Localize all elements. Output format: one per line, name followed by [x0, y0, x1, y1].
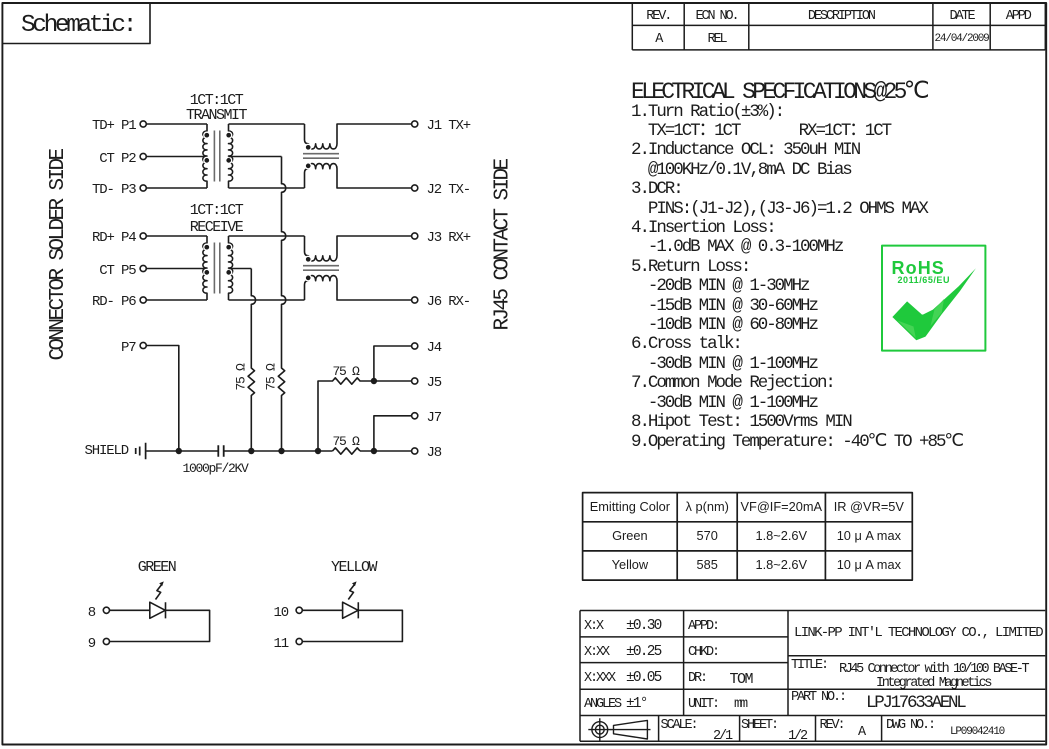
field SCALE: — [661, 719, 697, 733]
revision table — [632, 3, 1045, 50]
wire P3 to T1 — [146, 187, 207, 189]
wire P1 to T1 — [146, 123, 207, 125]
value label 1000pF/2KV — [183, 462, 248, 475]
LED D2 arrow — [348, 581, 356, 599]
field REV: — [820, 719, 844, 733]
resistor R3 75ohm to J5 — [318, 378, 374, 451]
value label 75 ohm R4 — [333, 435, 359, 448]
RoHS text — [892, 259, 945, 277]
field SHEET: — [741, 719, 777, 733]
pin J2 — [412, 185, 418, 191]
LED table row green — [583, 530, 678, 543]
label 1CT:1CT transmit — [166, 93, 266, 108]
pin P4 — [140, 233, 146, 239]
resistor R4 75ohm to J8 — [333, 448, 361, 454]
revision table header APPD — [990, 10, 1045, 24]
pin J8 — [412, 448, 418, 454]
pin label 10 — [259, 606, 288, 620]
net label TD- P3 — [57, 183, 136, 197]
LED table header Emitting Color — [583, 501, 678, 514]
CM1 phase dots — [305, 144, 311, 169]
net label J1 TX+ — [427, 119, 471, 133]
LED table header IR @VR=5V — [825, 501, 912, 514]
schematic title box — [2, 3, 150, 44]
choke CM2 bottom winding and wire to J6 — [305, 276, 412, 300]
pin J1 — [412, 121, 418, 127]
revision table header REV. — [632, 10, 684, 24]
transformer T2 primary winding — [203, 236, 207, 300]
field APPD: — [688, 620, 718, 634]
CM2 phase dots — [305, 256, 311, 281]
ground bus wire — [146, 450, 411, 452]
LED D1 green — [110, 602, 166, 618]
tolerance X:XXX — [584, 672, 614, 686]
revision row date — [933, 34, 990, 45]
title: Schematic: — [21, 14, 134, 39]
wire to J5 — [374, 380, 412, 382]
wire tap B vertical with hop and resistor R1 75ohm — [248, 269, 255, 452]
pin 9 — [103, 638, 109, 644]
transformer T2 secondary winding — [229, 236, 233, 300]
pin J5 — [412, 378, 418, 384]
transformer T1 core — [214, 131, 219, 182]
shield symbol — [136, 443, 146, 460]
title block outline — [580, 611, 1045, 742]
wire T1 secondary top to CM1 — [229, 123, 305, 125]
pin P5 — [140, 265, 146, 271]
tolerance ANGLES — [584, 698, 620, 712]
field CHKD: — [688, 646, 718, 660]
label 1CT:1CT receive — [166, 203, 266, 218]
RoHS checkmark facet — [898, 299, 945, 338]
net label J8 — [427, 446, 442, 460]
field UNIT: mm — [688, 698, 718, 712]
pin 10 — [296, 607, 302, 613]
part number — [866, 695, 964, 713]
net label RD+ P4 — [57, 231, 136, 245]
value label 75 ohm R2 vertical — [265, 364, 278, 390]
company name — [794, 626, 1042, 640]
transformer T2 core — [214, 243, 219, 294]
value label 75 ohm R1 vertical — [235, 364, 248, 390]
LED spec table — [583, 493, 913, 580]
title line 2 — [876, 677, 990, 691]
T1 phase dots — [204, 132, 232, 163]
dwg number — [950, 727, 1004, 738]
revision table header ECN NO. — [684, 10, 749, 24]
net label P7 — [57, 341, 136, 355]
wire D1 loop — [110, 610, 210, 641]
label GREEN — [116, 560, 197, 575]
field TITLE: — [791, 659, 827, 673]
junction dot at J5 node — [371, 378, 377, 384]
label CONNECTOR SOLDER SIDE — [48, 148, 69, 363]
pin P2 — [140, 153, 146, 159]
choke CM1 core — [303, 154, 339, 159]
pin label 8 — [66, 606, 95, 620]
pin 8 — [103, 607, 109, 613]
net label J2 TX- — [427, 183, 471, 197]
net label J7 — [427, 411, 442, 425]
RoHS logo box — [882, 246, 985, 351]
wire P2 to T1 — [146, 156, 207, 158]
wire P6 to T2 — [146, 299, 207, 301]
value label 75 ohm R3 — [333, 365, 359, 378]
junction dots on bus — [176, 448, 377, 454]
wire P7 down to bus — [146, 346, 179, 452]
LED table header VF@IF=20mA — [737, 501, 825, 514]
net label TD+ P1 — [57, 119, 136, 133]
pin label 9 — [66, 637, 95, 651]
net label RD- P6 — [57, 295, 136, 309]
wire P4 to T2 — [146, 235, 207, 237]
net label J6 RX- — [427, 295, 471, 309]
capacitor C1 1000pF/2KV — [218, 445, 223, 456]
LED table header lambda p(nm) — [677, 501, 737, 514]
choke CM2 core — [303, 266, 339, 271]
field DWG NO.: — [886, 719, 934, 733]
wire tap A vertical with hops and resistor R2 75ohm — [278, 157, 285, 452]
net label CT P2 — [57, 152, 136, 166]
RoHS checkmark — [892, 268, 976, 340]
label YELLOW — [313, 560, 394, 575]
label TRANSMIT — [166, 108, 266, 123]
LED D2 yellow — [302, 602, 358, 618]
net label J4 — [427, 341, 442, 355]
choke CM2 top winding and wire to J3 — [305, 236, 412, 261]
pin label 11 — [259, 637, 288, 651]
electrical specification list — [631, 103, 962, 452]
tolerance X:XX — [584, 646, 608, 660]
pin J7 — [412, 413, 418, 419]
pin P6 — [140, 297, 146, 303]
heading electrical specifications — [631, 81, 926, 104]
T2 phase dots — [204, 244, 232, 275]
wire T1 secondary bottom to CM1 — [229, 187, 305, 189]
pin J6 — [412, 297, 418, 303]
pin J3 — [412, 233, 418, 239]
wire T2 secondary bottom to CM2 — [229, 299, 305, 301]
choke CM1 bottom winding and wire to J2 — [305, 164, 412, 188]
transformer T1 secondary winding — [229, 124, 233, 188]
label RJ45 CONTACT SIDE — [493, 159, 514, 333]
field PART NO.: — [791, 691, 845, 705]
revision table header DESCRIPTION — [749, 10, 933, 24]
pin 11 — [296, 638, 302, 644]
choke CM1 top winding and wire to J1 — [305, 124, 412, 149]
transformer T1 primary winding — [203, 124, 207, 188]
revision row REL — [684, 33, 749, 47]
wire T1 secondary tap — [229, 156, 282, 158]
revision table header DATE — [933, 10, 990, 24]
revision row A — [632, 33, 684, 47]
net label J5 — [427, 376, 442, 390]
pin P3 — [140, 185, 146, 191]
pin J4 — [412, 343, 418, 349]
wire to J4 — [374, 346, 412, 381]
pin P1 — [140, 121, 146, 127]
net label CT P5 — [57, 264, 136, 278]
field DR: TOM — [688, 672, 706, 686]
RoHS 2011/65/EU — [898, 276, 951, 285]
LED D1 arrow — [156, 581, 164, 599]
wire D2 loop — [302, 610, 402, 641]
tolerance X:X — [584, 620, 602, 634]
wire T2 secondary top to CM2 — [229, 235, 305, 237]
title line 1 — [839, 663, 1027, 677]
wire to J7 — [374, 416, 412, 451]
label RECEIVE — [166, 220, 266, 235]
LED table row yellow — [583, 559, 678, 572]
net label SHIELD — [57, 444, 129, 458]
wire T2 secondary tap — [229, 268, 252, 270]
pin P7 — [140, 342, 146, 348]
net label J3 RX+ — [427, 231, 471, 245]
first angle projection symbol — [588, 718, 650, 741]
wire P5 to T2 — [146, 268, 207, 270]
